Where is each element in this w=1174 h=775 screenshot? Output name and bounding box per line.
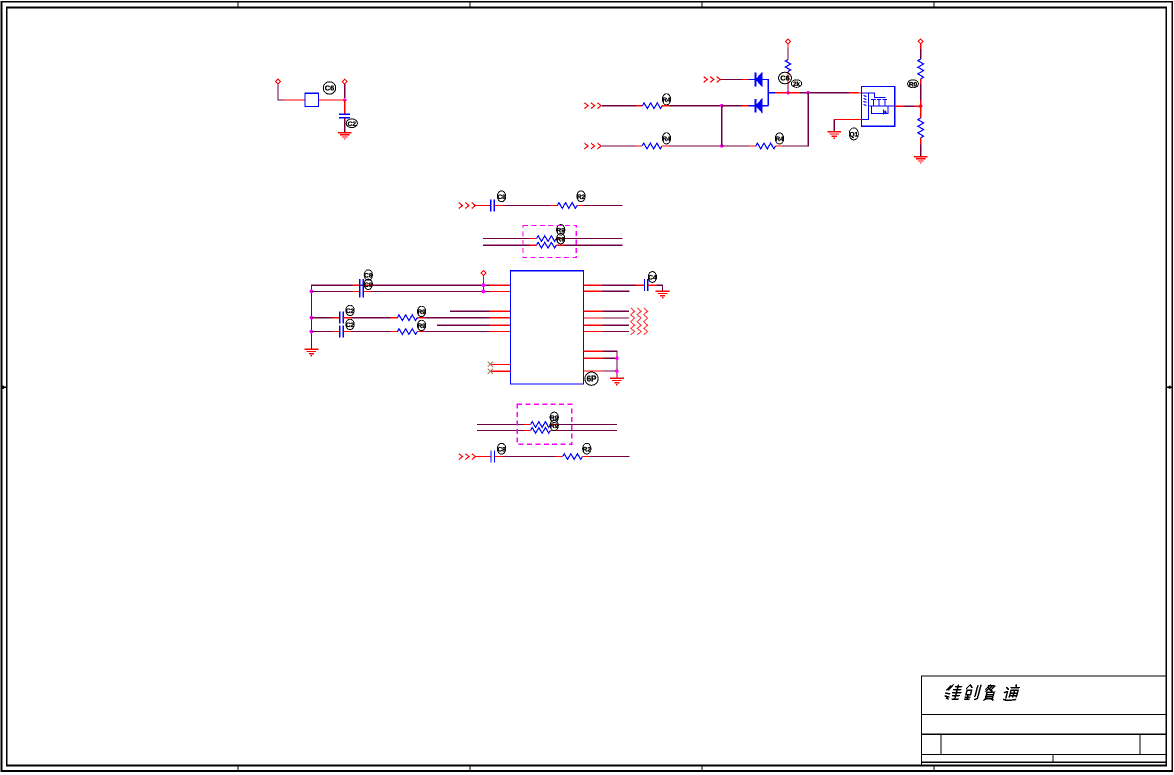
wire	[722, 145, 749, 147]
capacitor C7	[645, 279, 648, 291]
svg-text:Q1: Q1	[849, 132, 858, 139]
svg-text:R9: R9	[417, 323, 426, 330]
svg-text:R2: R2	[577, 194, 586, 201]
label C3	[364, 270, 373, 280]
wire	[343, 331, 351, 333]
wire	[344, 84, 346, 98]
label R7	[577, 191, 586, 202]
wire	[489, 284, 511, 286]
IC U1	[510, 271, 583, 384]
zone tick top 2	[469, 2, 471, 8]
zone tick top 1	[237, 2, 239, 8]
wire M3	[583, 324, 602, 326]
wire	[476, 456, 491, 458]
wire	[483, 285, 485, 291]
wire	[584, 205, 623, 207]
title block	[922, 676, 1167, 766]
diode D2	[756, 99, 763, 113]
wire	[602, 290, 630, 292]
wire	[722, 105, 742, 107]
wire	[602, 105, 636, 107]
wire	[602, 145, 636, 147]
label C5	[346, 305, 355, 315]
svg-text:C8: C8	[497, 194, 506, 201]
center arrow left edge	[1, 385, 7, 389]
wire	[787, 44, 789, 49]
wire A2	[311, 290, 352, 292]
junction	[482, 290, 486, 294]
label R3	[662, 133, 671, 144]
ground	[610, 378, 624, 384]
wire	[476, 205, 491, 207]
svg-text:6P: 6P	[587, 375, 597, 384]
svg-text:R2: R2	[583, 446, 592, 453]
resistor R7	[557, 203, 577, 209]
terminal P3	[786, 39, 791, 44]
wire	[489, 290, 511, 292]
label C6	[346, 319, 355, 329]
wire	[425, 317, 490, 319]
wire	[477, 424, 524, 426]
wire	[636, 105, 643, 107]
wire	[648, 284, 657, 286]
diode D2 lead	[748, 105, 755, 107]
wire	[550, 429, 557, 431]
wire	[495, 456, 504, 458]
svg-text:C6: C6	[325, 84, 335, 93]
svg-text:R4: R4	[662, 97, 671, 104]
wire	[603, 357, 617, 359]
wire	[503, 205, 551, 207]
label R4	[775, 133, 784, 144]
center arrow right edge	[1166, 385, 1173, 389]
wire	[490, 324, 512, 326]
wire	[351, 317, 391, 319]
label R2 value	[791, 80, 801, 88]
mosfet Q1 box	[861, 86, 894, 126]
resistor R8	[537, 236, 557, 242]
wire	[742, 105, 748, 107]
junction	[482, 283, 486, 287]
connector input row1	[584, 103, 601, 109]
no-connect X	[488, 362, 493, 367]
capacitor C3	[360, 279, 364, 291]
zone tick bottom 2	[469, 766, 471, 772]
wire	[775, 92, 788, 94]
zone tick top 3	[701, 2, 703, 8]
wire	[391, 317, 398, 319]
connector input	[459, 203, 476, 209]
wire	[530, 244, 537, 246]
wire	[490, 331, 512, 333]
wire	[530, 238, 537, 240]
resistor R4	[756, 143, 776, 149]
wire	[670, 105, 722, 107]
wire	[904, 105, 915, 107]
label R8	[557, 225, 566, 235]
wire	[788, 92, 800, 94]
svg-text:R4: R4	[662, 136, 671, 143]
connector chevrons column 3	[644, 308, 648, 335]
wire left bus	[311, 285, 511, 348]
svg-text:R9: R9	[557, 236, 566, 243]
junction	[310, 290, 314, 294]
terminal P5	[481, 271, 486, 276]
wire	[417, 317, 424, 319]
wire	[425, 331, 490, 333]
zone tick bottom 4	[933, 766, 935, 772]
wire	[895, 105, 904, 107]
wire	[333, 317, 340, 319]
label R2 refdes	[779, 72, 792, 84]
svg-text:C8: C8	[497, 446, 506, 453]
wire	[636, 145, 642, 147]
resistor R12	[531, 422, 551, 428]
svg-text:C6: C6	[780, 74, 790, 83]
wire	[391, 331, 398, 333]
wire	[603, 351, 617, 378]
wire	[503, 456, 556, 458]
wire	[768, 92, 775, 94]
wire corner	[657, 285, 663, 291]
label R12	[550, 412, 559, 422]
wire	[278, 84, 285, 100]
capacitor C4	[360, 285, 364, 297]
wire	[920, 44, 922, 49]
wire R2 out dangling	[583, 290, 602, 292]
wire A3	[450, 310, 490, 312]
wire bottom right 2	[583, 357, 603, 359]
label C8	[497, 443, 506, 454]
wire	[800, 92, 849, 94]
wire	[556, 456, 563, 458]
junction	[310, 330, 314, 334]
wire	[557, 424, 617, 426]
ground	[914, 157, 928, 163]
terminal P2	[342, 79, 347, 84]
wire	[742, 79, 749, 81]
resistor R3	[642, 143, 662, 149]
svg-text:R9: R9	[550, 415, 559, 422]
no-connect pin	[491, 370, 511, 372]
junction	[615, 357, 619, 361]
zone tick bottom 3	[701, 766, 703, 772]
wire	[920, 49, 922, 59]
wire	[602, 324, 629, 326]
label C7	[648, 272, 657, 283]
wire	[577, 205, 584, 207]
connector input top row	[704, 77, 721, 83]
wire	[762, 105, 768, 107]
ferrite bead FB1	[305, 93, 318, 106]
capacitor C5	[340, 312, 344, 324]
wire	[721, 79, 742, 81]
wire bottom right 1	[583, 350, 603, 352]
ground	[656, 291, 670, 297]
wire	[483, 244, 530, 246]
capacitor C2	[491, 199, 495, 211]
wire	[662, 105, 669, 107]
capacitor C1	[339, 114, 350, 117]
wire	[602, 284, 636, 286]
capacitor C6	[340, 326, 344, 338]
wire	[353, 290, 360, 292]
resistor R13	[531, 428, 551, 434]
resistor R1	[642, 103, 662, 109]
ground	[305, 349, 319, 355]
wire	[749, 145, 756, 147]
wire	[563, 244, 623, 246]
label R10	[417, 306, 426, 316]
terminal P1	[276, 79, 281, 84]
mosfet Q1 internals	[861, 93, 894, 119]
connector chevrons column 2	[637, 308, 641, 335]
wire	[550, 424, 557, 426]
wire corner up	[782, 93, 808, 146]
junction	[720, 104, 724, 108]
label R11	[417, 320, 426, 330]
junction	[720, 144, 724, 148]
dashed select box	[523, 225, 576, 257]
wire	[483, 275, 485, 285]
wire	[477, 429, 524, 431]
label Q1	[849, 128, 858, 140]
resistor R9	[537, 242, 557, 248]
wire	[556, 244, 563, 246]
terminal P4	[918, 39, 923, 44]
wire	[636, 284, 645, 286]
wire vertical	[721, 106, 723, 146]
svg-text:R9: R9	[550, 423, 559, 430]
wire	[344, 100, 346, 114]
wire	[524, 424, 531, 426]
wire	[787, 85, 789, 93]
diode D1	[756, 73, 763, 87]
wire A4	[437, 324, 490, 326]
wire	[833, 119, 835, 131]
wire M2	[583, 317, 602, 319]
label C2	[497, 191, 506, 202]
wire M1	[583, 310, 602, 312]
wire	[920, 138, 922, 145]
wire	[776, 145, 782, 147]
wire	[556, 238, 563, 240]
label R14	[583, 443, 592, 454]
wire A1 red leads	[353, 284, 360, 286]
connector input	[459, 454, 476, 460]
wire	[363, 290, 371, 292]
wire	[351, 331, 391, 333]
wire cathode bus	[762, 80, 768, 106]
wire M4	[583, 330, 602, 332]
wire	[849, 92, 861, 94]
connector input row2	[584, 143, 601, 149]
svg-text:C4: C4	[648, 275, 657, 282]
wire	[490, 310, 512, 312]
wire B2	[311, 331, 332, 333]
wire	[920, 145, 922, 156]
wire	[603, 370, 617, 372]
wire	[557, 429, 617, 431]
resistor R6	[918, 118, 924, 138]
wire	[563, 238, 623, 240]
resistor R10	[397, 315, 417, 321]
company logo text (CJK strokes)	[944, 685, 1020, 700]
wire	[371, 290, 489, 292]
junction	[310, 316, 314, 320]
wire	[363, 284, 371, 286]
label U1	[585, 372, 598, 385]
label C1	[346, 119, 357, 128]
diode D1 lead	[748, 79, 755, 81]
junction	[786, 91, 790, 95]
wire	[602, 310, 629, 312]
svg-text:R0: R0	[909, 81, 918, 88]
wire	[417, 331, 424, 333]
svg-text:R9: R9	[417, 309, 426, 316]
svg-text:C2: C2	[346, 322, 355, 329]
wire	[787, 72, 789, 86]
no-connect pin	[491, 363, 511, 365]
junction	[343, 98, 347, 102]
junction	[806, 91, 810, 95]
wire	[602, 317, 629, 319]
junction	[919, 104, 923, 108]
wire	[524, 429, 531, 431]
wire	[494, 205, 503, 207]
wire	[834, 118, 861, 120]
wire	[920, 84, 922, 101]
label R13	[550, 420, 559, 430]
no-connect X	[488, 369, 493, 374]
wire	[333, 331, 340, 333]
wire	[920, 79, 922, 84]
wire	[589, 456, 629, 458]
wire	[787, 48, 789, 59]
wire bottom right 3	[583, 370, 603, 372]
label R1	[662, 94, 671, 105]
svg-text:C8: C8	[364, 273, 373, 280]
label FB1	[323, 82, 335, 94]
wire	[343, 317, 351, 319]
wire A1 maroon	[371, 284, 489, 286]
ground	[827, 132, 841, 138]
label C4	[364, 279, 373, 289]
wire	[669, 145, 722, 147]
wire	[344, 118, 346, 132]
svg-text:R4: R4	[775, 136, 784, 143]
label R9	[557, 234, 566, 244]
svg-text:2k: 2k	[793, 82, 800, 88]
zone tick top 4	[933, 2, 935, 8]
wire	[551, 205, 558, 207]
wire	[602, 330, 629, 332]
resistor R2	[785, 60, 790, 72]
wire	[582, 456, 589, 458]
dashed select box lower	[517, 404, 572, 444]
resistor R11	[397, 329, 417, 335]
wire	[490, 317, 512, 319]
wire	[318, 99, 344, 101]
capacitor C8	[491, 451, 495, 463]
zone tick bottom 1	[237, 766, 239, 772]
connector chevrons column 1	[631, 308, 635, 335]
label R5	[908, 80, 919, 89]
resistor R14	[563, 454, 583, 460]
svg-text:C2: C2	[348, 121, 357, 128]
resistor R5	[918, 59, 924, 79]
wire	[920, 101, 922, 119]
junction	[615, 369, 619, 373]
ground	[338, 133, 352, 139]
wire	[285, 99, 306, 101]
wire	[915, 105, 921, 107]
svg-text:C2: C2	[346, 308, 355, 315]
wire R1 out	[583, 284, 602, 286]
wire	[483, 238, 530, 240]
wire B1	[311, 317, 332, 319]
wire	[662, 145, 669, 147]
